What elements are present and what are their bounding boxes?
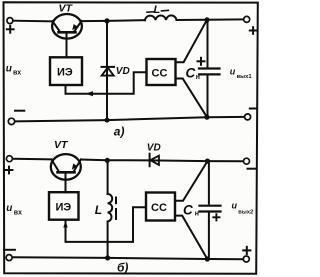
- svg-text:VT: VT: [59, 3, 74, 15]
- svg-text:н: н: [195, 211, 199, 218]
- svg-text:u: u: [6, 64, 12, 75]
- svg-text:вых2: вых2: [238, 210, 253, 216]
- svg-text:u: u: [230, 67, 236, 77]
- svg-text:б): б): [117, 261, 128, 275]
- svg-text:СС: СС: [151, 202, 167, 214]
- svg-text:н: н: [196, 74, 200, 81]
- svg-text:VT: VT: [54, 139, 69, 151]
- svg-text:вх: вх: [13, 70, 21, 77]
- svg-text:C: C: [186, 66, 196, 81]
- svg-text:СС: СС: [152, 68, 168, 80]
- svg-text:C: C: [183, 203, 193, 218]
- svg-text:u: u: [6, 203, 12, 214]
- svg-text:VD: VD: [147, 143, 161, 154]
- svg-text:ИЭ: ИЭ: [56, 202, 72, 214]
- svg-text:вх: вх: [14, 210, 22, 217]
- svg-text:L: L: [154, 4, 161, 16]
- svg-text:вых1: вых1: [237, 74, 253, 80]
- svg-text:L: L: [95, 203, 102, 217]
- svg-text:VD: VD: [116, 66, 130, 77]
- svg-text:ИЭ: ИЭ: [57, 67, 73, 79]
- svg-text:u: u: [232, 201, 238, 211]
- svg-text:а): а): [114, 125, 125, 139]
